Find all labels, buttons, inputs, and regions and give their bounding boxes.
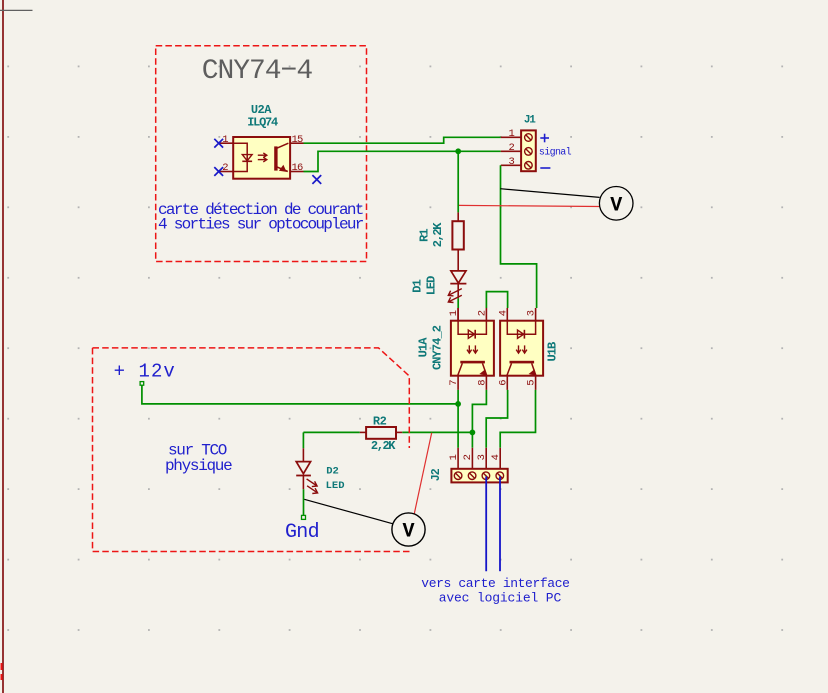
node junction J1 pin2 [455,148,461,154]
svg-text:6: 6 [498,379,510,385]
node no-connect pin1 [214,139,223,148]
diode D2 arrows [307,479,317,486]
wire U1A pin2 to U1B pin4 [486,292,507,308]
wire pin2 J1 [501,150,521,152]
svg-text:3: 3 [476,454,488,460]
svg-text:Gnd: Gnd [285,521,319,544]
optocoupler U2A arrows [258,154,267,156]
wire U1B pin6 to J2 pin3 [486,390,507,448]
node +12v anchor [140,382,144,386]
svg-text:4: 4 [490,454,502,460]
wire D1 to U1A pin1 [457,298,459,308]
wire D2 to R2 [303,431,359,433]
svg-text:LED: LED [424,276,438,295]
svg-text:7: 7 [448,379,460,385]
optocoupler U2A LED [233,143,247,171]
svg-text:R2: R2 [373,414,387,428]
svg-text:U1B: U1B [545,342,559,362]
optocoupler U1A arrows [468,345,470,352]
wire pin16 to J1 pin2 [304,151,501,171]
svg-text:physique: physique [165,457,232,475]
wire partial dashes bottom-left [1,663,3,670]
wire pins U1A [457,308,459,321]
svg-text:8: 8 [476,379,488,385]
svg-text:3: 3 [508,156,514,168]
wire pin16 U2A [290,171,303,173]
svg-text:1: 1 [448,310,460,316]
wire D2 to Gnd [303,489,305,515]
svg-text:2: 2 [508,142,514,154]
wire pins U1B [506,308,508,321]
node junction 12v [455,401,461,407]
connector J2 body [451,469,507,483]
svg-text:avec logiciel PC: avec logiciel PC [439,591,562,606]
wire junction to R1 [457,151,459,212]
node TCO dashed box [93,348,411,552]
wire R2 branch to D2 [302,432,304,448]
resistor R2 [366,427,396,439]
svg-text:2,2K: 2,2K [371,439,396,453]
wire J2 pin3 blue [485,477,487,572]
svg-text:16: 16 [292,162,304,174]
svg-text:1: 1 [448,454,460,460]
transistor in U1A [460,361,485,364]
svg-text:J1: J1 [524,115,536,127]
wire J2 pin4 blue [499,477,501,572]
wire U1B pin5 to J2 pin4 [500,390,535,448]
diode D2 LED [296,462,310,474]
svg-text:4: 4 [498,310,510,316]
wire frame border [2,0,4,693]
wire R1 to D1 [457,250,459,271]
wire D1 cathode [457,284,459,299]
node label plus [540,137,549,139]
optocoupler U1A body [451,321,494,376]
svg-text:LED: LED [326,480,345,492]
wire J1 pin3 to U1B pin3 [501,165,537,308]
svg-text:vers carte interface: vers carte interface [421,576,569,591]
svg-text:1: 1 [508,128,514,140]
svg-text:signal: signal [539,147,572,159]
svg-text:U1A: U1A [417,337,431,358]
wire U1A pin8 to J2 pin2 [472,390,486,448]
voltmeter V1 [599,187,633,221]
diode D1 arrows [449,289,462,295]
resistor R1 [452,221,463,249]
node CNY74-4 dashed box [156,46,367,262]
wire pin1 U1A [457,308,459,321]
svg-text:D1: D1 [411,279,425,292]
node junction R2 [470,430,476,436]
svg-text:5: 5 [526,379,538,385]
node label minus [540,167,550,169]
diode D1 LED [451,271,466,283]
wire probe red V2 [414,433,431,514]
optocoupler U1B body [500,321,543,376]
wire pin1 J1 [501,136,521,138]
node Gnd anchor [302,515,306,519]
transistor in U1B [510,361,535,364]
wire pin2 U2A [218,171,233,173]
wire probe black V1 [500,189,599,198]
svg-text:3: 3 [526,310,538,316]
optocoupler U1B LED [507,321,535,335]
wire frame top [0,9,33,11]
voltmeter V2 [392,513,425,546]
svg-text:15: 15 [292,134,304,146]
svg-text:2,2K: 2,2K [431,222,445,247]
wire pin15 to J1 pin1 [304,137,501,143]
svg-text:2: 2 [462,454,474,460]
wire probe black V2 [304,499,392,523]
svg-text:R1: R1 [417,229,431,242]
optocoupler U2A body [233,137,290,179]
connector J1 body [521,130,536,171]
wire pin1 J2 [457,448,459,469]
node no-connect pin2 [214,167,223,176]
optocoupler U1B arrows [518,345,520,352]
wire pin3 J1 [501,164,521,166]
node no-connect pin16 [312,175,321,184]
wire pin2 J2 [471,448,473,469]
svg-text:CNY74_2: CNY74_2 [430,325,444,370]
wire pin3 J2 [485,448,487,469]
svg-text:+ 12v: + 12v [114,361,176,383]
svg-text:2: 2 [476,310,488,316]
svg-text:V: V [610,195,622,218]
svg-text:V: V [402,521,414,544]
wire pin1 U2A [218,142,233,144]
svg-text:4 sorties sur optocoupleur: 4 sorties sur optocoupleur [158,215,364,233]
svg-text:D2: D2 [326,466,339,478]
svg-text:J2: J2 [430,468,443,481]
wire pin4 J2 [499,448,501,469]
wire +12v to junction [142,385,458,404]
svg-text:CNY74−4: CNY74−4 [202,56,313,87]
optocoupler U1A LED [458,321,486,335]
wire U1A pin7 to J2 pin1 [457,390,459,448]
transistor in U2A [274,146,277,170]
wire R2 to junction [402,431,472,433]
svg-text:ILQ74: ILQ74 [247,115,278,129]
wire probe red V1 [459,205,600,206]
wire pin15 U2A [290,142,303,144]
